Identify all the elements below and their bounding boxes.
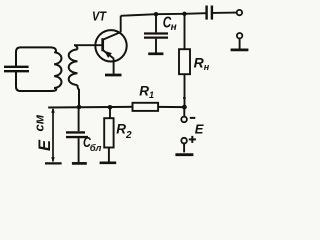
wire (bottom output terminal to ground) <box>239 38 241 49</box>
terminal (output, bottom) <box>237 33 242 38</box>
ground (Cbl) <box>72 162 87 165</box>
wire (Cn lower lead) <box>155 39 157 53</box>
dimension arrow Eсм (bias voltage) <box>52 109 54 162</box>
wire (bias rail left segment) <box>48 106 132 109</box>
capacitor Cн <box>144 34 168 38</box>
svg-text:бл: бл <box>90 143 102 154</box>
resistor R1 <box>133 103 159 111</box>
wire (collector riser) <box>120 16 122 32</box>
svg-text:VT: VT <box>92 10 107 24</box>
wire top rail (collector supply line) <box>121 13 206 16</box>
svg-text:E: E <box>195 121 204 136</box>
wire (Rn upper lead) <box>184 14 186 49</box>
wire (R2 upper lead) <box>109 107 111 118</box>
junction (R1 / Rn / battery) <box>182 105 187 110</box>
wire (Cbl lower lead) <box>78 138 80 162</box>
junction (R2 / bias rail) <box>108 105 113 110</box>
terminal (battery plus) <box>181 138 187 144</box>
tank circuit loop upper part (wire + corners) <box>16 47 56 66</box>
capacitor (output coupling) <box>207 6 212 20</box>
wire (plus terminal to ground) <box>183 143 185 152</box>
wire (R1 to battery junction) <box>158 106 184 108</box>
inductor L (tank coil, primary) <box>54 52 61 88</box>
svg-text:н: н <box>171 22 177 33</box>
white halo behind Cн label <box>158 16 180 32</box>
ground (Cn) <box>148 52 163 55</box>
transistor VT base bar <box>101 38 104 51</box>
junction (top rail / Rn) <box>182 12 186 16</box>
ground (emitter) <box>105 74 122 77</box>
wire (Cbl upper lead) <box>78 107 80 132</box>
capacitor (tank) <box>4 67 29 71</box>
svg-text:E: E <box>36 139 54 151</box>
inductor L2 bumps <box>69 49 78 85</box>
resistor R2 <box>104 118 113 147</box>
wire (Rn lower lead) <box>184 74 186 107</box>
wire (base lead) <box>74 44 102 46</box>
terminal (battery minus) <box>181 117 187 123</box>
wire (emitter lead) <box>113 59 115 74</box>
tank circuit loop lower part <box>16 72 56 91</box>
wire (coupling cap to output terminal) <box>213 12 237 14</box>
inductor L2 bottom lead (s-curve + wire to rail) <box>77 85 79 106</box>
wire (Cn upper lead) <box>155 14 157 32</box>
transistor VT collector stroke <box>103 32 121 40</box>
wire (battery junction to minus terminal) <box>183 107 185 117</box>
capacitor Cбл <box>66 132 88 137</box>
label plus sign <box>189 136 196 143</box>
resistor Rн <box>179 49 190 74</box>
dimension bottom tick (Eсм) <box>45 162 62 164</box>
junction (top rail / Cn) <box>154 12 158 16</box>
transistor VT (PNP) : envelope circle <box>95 30 126 61</box>
ground (output terminal) <box>231 49 249 52</box>
junction (coil bottom / bias rail) <box>77 105 82 110</box>
wire (R2 lower lead) <box>108 148 110 162</box>
inductor L2 (coupling coil, secondary) : top hook <box>74 45 77 49</box>
transistor VT emitter arrow (points to base: pnp) <box>104 51 112 58</box>
label minus sign <box>190 117 196 119</box>
ground (battery plus) <box>175 153 193 156</box>
svg-text:см: см <box>32 114 47 131</box>
terminal (output, top) <box>237 10 242 15</box>
ground (R2) <box>100 161 117 164</box>
transistor VT emitter stroke <box>103 50 114 59</box>
junction (small dot on Rn lead) <box>183 97 186 100</box>
